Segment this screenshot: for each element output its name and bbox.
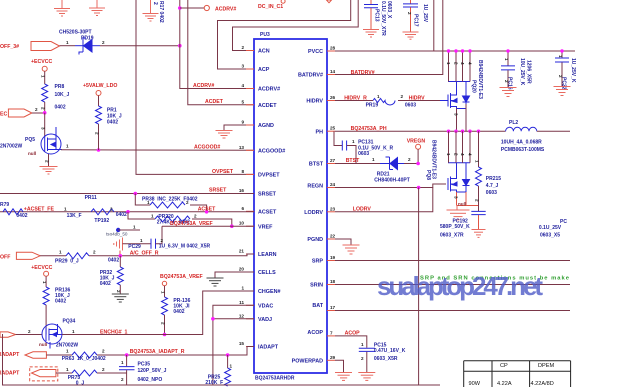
svg-text:PGND: PGND: [307, 237, 323, 243]
svg-text:BAT: BAT: [312, 303, 323, 309]
svg-text:PQ20: PQ20: [471, 80, 477, 93]
pin 20 CELLS: [246, 271, 254, 273]
svg-text:2: 2: [102, 40, 105, 45]
svg-text:3: 3: [41, 127, 46, 130]
resistor PR19 0603: [373, 99, 395, 106]
svg-text:25: 25: [330, 126, 336, 131]
capacitor PC22 on PVCC rail: [561, 51, 563, 58]
svg-text:1: 1: [151, 214, 154, 219]
pin 15 IADAPT: [246, 346, 254, 348]
wire: [40, 255, 66, 257]
svg-text:13K_F: 13K_F: [67, 213, 82, 219]
svg-text:0402: 0402: [55, 105, 66, 111]
svg-text:ACDET: ACDET: [258, 103, 277, 109]
svg-text:15: 15: [239, 341, 245, 346]
pin 6 ACSET: [246, 210, 254, 212]
resistor PR220 27.4K_F 0402: [128, 212, 232, 226]
svg-text:CP: CP: [500, 363, 508, 369]
svg-text:tso4db_50: tso4db_50: [106, 232, 128, 237]
svg-text:4: 4: [241, 83, 244, 88]
svg-text:1: 1: [377, 94, 380, 99]
svg-text:+ACSET_FE: +ACSET_FE: [24, 206, 55, 212]
ground (power, below PQ8): [447, 206, 470, 220]
svg-text:0402: 0402: [107, 120, 118, 126]
svg-text:2: 2: [28, 329, 31, 334]
svg-text:2: 2: [407, 12, 412, 15]
pin 25 PH: [327, 130, 335, 132]
pin 16 SRSET: [246, 193, 254, 195]
svg-text:7: 7: [330, 330, 333, 335]
svg-text:11: 11: [239, 300, 244, 305]
svg-text:IADAPT: IADAPT: [258, 345, 279, 351]
pin 26 HIDRV: [327, 100, 335, 102]
node junction REGN: [417, 186, 421, 190]
svg-text:0402: 0402: [173, 309, 184, 315]
resistor PR29 0_J 0402: [66, 253, 89, 259]
svg-text:null: null: [28, 151, 36, 156]
svg-text:1206_X5R: 1206_X5R: [526, 60, 532, 84]
node junction PR1/ACGOOD: [97, 148, 101, 152]
svg-text:ACDRV#: ACDRV#: [258, 87, 280, 93]
pin 13 ACGOOD#: [246, 149, 254, 151]
svg-text:0603_X5: 0603_X5: [540, 232, 560, 238]
wire ENCHG#_1: [62, 291, 254, 335]
wire bottom rail: [3, 334, 441, 385]
svg-text:4: 4: [460, 153, 465, 156]
pin 10 VREF: [246, 225, 254, 227]
node junction EC/PR8: [43, 111, 47, 115]
svg-text:14: 14: [330, 69, 336, 74]
wire SRIN: [335, 284, 570, 286]
svg-text:PC13: PC13: [374, 9, 380, 22]
svg-text:ACGOOD#: ACGOOD#: [258, 149, 285, 155]
wire VREF row: [162, 225, 254, 227]
resistor PR136 10K_J 0402: [43, 287, 49, 305]
svg-text:2: 2: [41, 107, 46, 110]
wire HIDRV_R: [335, 100, 373, 102]
svg-text:ACDRV#: ACDRV#: [193, 83, 214, 89]
node junction IADAPT/PC35: [125, 353, 129, 357]
wire POWERPAD: [335, 360, 344, 372]
svg-text:PR215: PR215: [486, 176, 502, 182]
svg-text:4: 4: [460, 62, 465, 65]
svg-text:ACDRV#: ACDRV#: [215, 7, 236, 13]
svg-text:1: 1: [121, 360, 124, 365]
svg-text:1: 1: [42, 281, 47, 284]
svg-text:DPEM: DPEM: [538, 363, 555, 369]
svg-text:16: 16: [239, 188, 245, 193]
svg-text:4.22A/8D: 4.22A/8D: [531, 381, 554, 387]
svg-text:BATDRV#: BATDRV#: [351, 70, 375, 76]
svg-text:LODRV: LODRV: [353, 206, 372, 212]
svg-text:1: 1: [446, 153, 451, 156]
ground (POWERPAD): [335, 373, 352, 381]
svg-text:PQ5: PQ5: [25, 137, 35, 143]
svg-text:R79: R79: [0, 202, 9, 208]
ground: [403, 32, 419, 39]
svg-text:2: 2: [161, 322, 166, 325]
wire ACSET row: [0, 210, 254, 213]
svg-text:1U_6.3V_M 0402_X5R: 1U_6.3V_M 0402_X5R: [159, 243, 211, 249]
node junction SRSET: [134, 192, 138, 196]
svg-text:2N7002W: 2N7002W: [0, 144, 23, 150]
svg-text:3: 3: [454, 196, 459, 199]
svg-text:ACOP: ACOP: [345, 331, 361, 337]
node junction VADJ: [211, 317, 215, 321]
wire BAT: [335, 310, 570, 312]
svg-text:PC35: PC35: [138, 361, 151, 367]
svg-text:2: 2: [475, 199, 480, 202]
svg-text:POWERPAD: POWERPAD: [292, 359, 323, 365]
svg-text:1: 1: [161, 291, 166, 294]
pin 27 BTST: [327, 163, 335, 165]
svg-text:0603: 0603: [405, 102, 416, 108]
node junction AC_OFF/PR32: [119, 254, 123, 258]
pin 23 LODRV: [327, 211, 335, 213]
wire ACGOOD#: [61, 149, 254, 152]
pin 1 CHGEN#: [246, 290, 254, 292]
svg-text:20: 20: [239, 267, 245, 272]
resistor PR63 1K_0_J0402: [72, 352, 97, 358]
svg-text:18: 18: [330, 279, 336, 284]
svg-text:1: 1: [66, 144, 69, 149]
svg-text:AGND: AGND: [258, 123, 274, 129]
svg-text:28: 28: [330, 46, 336, 51]
svg-text:PR11: PR11: [85, 195, 97, 201]
svg-text:2: 2: [93, 249, 96, 254]
svg-text:ACSET: ACSET: [198, 206, 216, 212]
ground (black): [112, 294, 129, 302]
pin 5 ACDET: [246, 104, 254, 106]
svg-text:10K_J: 10K_J: [55, 92, 70, 98]
wire HIDRV: [398, 100, 440, 102]
pin 4 ACDRV#: [246, 88, 254, 90]
svg-text:1: 1: [372, 157, 375, 162]
svg-text:6: 6: [241, 206, 244, 211]
svg-text:VREGN: VREGN: [407, 139, 426, 145]
svg-text:2: 2: [161, 238, 164, 243]
svg-text:0402: 0402: [108, 257, 119, 263]
ground PGND: [343, 245, 360, 254]
wire PH rail: [335, 130, 506, 132]
svg-text:1: 1: [558, 55, 563, 58]
pin 21 LEARN: [246, 253, 254, 255]
svg-text:BTST: BTST: [346, 158, 360, 164]
svg-text:27: 27: [330, 158, 336, 163]
svg-text:8: 8: [241, 169, 244, 174]
wire FET drain stubs: [449, 51, 471, 82]
svg-text:29: 29: [330, 355, 336, 360]
svg-text:4.22A: 4.22A: [497, 381, 512, 387]
node junction ACSET/PR38: [205, 210, 209, 214]
wire REGN: [335, 184, 446, 188]
wire source to ground: [48, 154, 50, 166]
svg-text:sualaptop247.net: sualaptop247.net: [377, 271, 543, 301]
svg-text:0402: 0402: [16, 213, 27, 219]
svg-text:DC_IN_C1: DC_IN_C1: [258, 4, 283, 10]
svg-text:PC22: PC22: [561, 77, 567, 90]
svg-text:4.7_J: 4.7_J: [486, 183, 499, 189]
svg-text:2: 2: [152, 2, 158, 5]
svg-text:+5VALW_LDO: +5VALW_LDO: [83, 83, 117, 89]
op-amp U1 : charger IC PU3 BQ24753ARHDR: [254, 39, 327, 373]
wire SRP: [335, 260, 570, 262]
svg-text:2N7002W: 2N7002W: [56, 343, 79, 349]
ground (small, PC192): [472, 230, 486, 238]
ground: [554, 87, 571, 96]
wire OVPSET vertical: [136, 0, 254, 174]
svg-text:PR29 0_J: PR29 0_J: [55, 258, 79, 264]
net flag (cropped): [327, 0, 332, 3]
svg-text:1: 1: [66, 40, 69, 45]
wire PQ8 drain stubs: [449, 131, 471, 163]
wire LODRV: [335, 188, 433, 212]
svg-text:VADJ: VADJ: [258, 317, 272, 323]
svg-text:ACN: ACN: [258, 49, 270, 55]
svg-text:REGN: REGN: [307, 184, 323, 190]
svg-text:ACP: ACP: [258, 67, 270, 73]
diode RD21 CH8400H-40PT: [380, 157, 404, 170]
capacitor PC29 1U_6.3V_M 0402_X5R: [123, 243, 151, 245]
svg-text:0603_X5R: 0603_X5R: [374, 356, 398, 362]
svg-text:B9424BDVT1-E3: B9424BDVT1-E3: [477, 60, 483, 99]
node junction ENCHG/PR-136: [163, 333, 167, 337]
svg-text:PC17: PC17: [413, 14, 419, 27]
svg-text:1: 1: [59, 249, 62, 254]
svg-text:1: 1: [133, 225, 136, 230]
pin 12 VADJ: [246, 318, 254, 320]
wire ACOP: [335, 336, 367, 348]
svg-text:CHGEN#: CHGEN#: [258, 289, 280, 295]
wire gate: [44, 113, 46, 137]
svg-text:0.47U_16V_K: 0.47U_16V_K: [374, 348, 406, 354]
svg-text:LEARN: LEARN: [258, 252, 277, 258]
svg-text:1: 1: [352, 139, 355, 144]
svg-text:10UH_4A_0.068R: 10UH_4A_0.068R: [501, 140, 542, 146]
pin 18 SRIN: [327, 284, 335, 286]
svg-text:1: 1: [361, 342, 364, 347]
svg-text:PVCC: PVCC: [308, 49, 323, 55]
svg-text:BTST: BTST: [309, 162, 324, 168]
wire ACDRV# vertical: [180, 0, 254, 89]
resistor PR32 10K_J 0402: [119, 256, 121, 267]
pin 22 PGND: [327, 238, 335, 240]
svg-text:null: null: [458, 202, 466, 207]
svg-text:ACDET: ACDET: [205, 99, 224, 105]
ground: [363, 30, 379, 38]
ground (rotated, PC29 left): [114, 238, 123, 256]
svg-text:PL2: PL2: [509, 120, 518, 126]
svg-text:0402_NPO: 0402_NPO: [138, 377, 163, 383]
svg-text:BQ24753A_VREF: BQ24753A_VREF: [160, 274, 203, 280]
capacitor on PVCC rail (10U_25V_K 1206_X5R): [507, 51, 509, 66]
svg-text:1: 1: [504, 58, 509, 61]
svg-text:90W: 90W: [469, 381, 481, 387]
svg-text:13: 13: [239, 145, 245, 150]
svg-text:CELLS: CELLS: [258, 270, 276, 276]
svg-text:A/C_OFF_R: A/C_OFF_R: [130, 251, 159, 257]
svg-text:2: 2: [35, 107, 38, 112]
capacitor (top, 0.1U_50V): [364, 0, 378, 29]
svg-text:OFF: OFF: [0, 255, 10, 261]
wire PH output: [537, 130, 570, 132]
svg-text:22: 22: [330, 234, 336, 239]
svg-text:ACSET: ACSET: [258, 210, 277, 216]
svg-text:2: 2: [241, 45, 244, 50]
svg-text:VREF: VREF: [258, 224, 273, 230]
table: [464, 361, 571, 387]
resistor PR215 4.7_J 0603: [478, 131, 480, 167]
svg-text:23: 23: [330, 206, 336, 211]
node junction ACDRV# flag tap: [178, 6, 182, 10]
svg-text:4: 4: [468, 62, 473, 65]
node junction BTST/VREGN: [416, 162, 420, 166]
pin 28 PVCC: [327, 50, 335, 52]
svg-text:1U_25V: 1U_25V: [422, 4, 428, 23]
svg-text:1: 1: [66, 367, 69, 372]
wire ACP loop: [218, 0, 351, 69]
svg-text:24: 24: [330, 182, 336, 187]
svg-text:17: 17: [330, 305, 336, 310]
svg-text:1: 1: [140, 238, 143, 243]
svg-text:2: 2: [186, 200, 189, 205]
svg-text:2: 2: [102, 349, 105, 354]
svg-text:2: 2: [95, 132, 100, 135]
svg-text:1: 1: [72, 329, 75, 334]
wire BATDRV#: [335, 0, 443, 75]
svg-text:2: 2: [121, 377, 124, 382]
svg-text:1: 1: [41, 75, 46, 78]
svg-text:2: 2: [454, 153, 459, 156]
svg-text:OFF_3#: OFF_3#: [0, 44, 19, 50]
ground: [500, 88, 517, 97]
pin 11 VDAC: [246, 304, 254, 306]
resistor PR-136 10K_JI 0402: [162, 297, 168, 315]
node junctions on PH rail: [447, 130, 450, 133]
svg-text:2: 2: [454, 62, 459, 65]
wire: [60, 45, 76, 47]
svg-text:PU3: PU3: [260, 32, 270, 38]
resistor PR25 210K_F: [226, 353, 230, 357]
ground CELLS (black): [215, 272, 254, 278]
svg-text:HIDRV_R: HIDRV_R: [344, 96, 367, 102]
ground: [54, 0, 70, 16]
node junction ACSET/PR220: [126, 210, 130, 214]
svg-text:PCMB063T-100MS: PCMB063T-100MS: [501, 147, 545, 153]
svg-text:SRSET: SRSET: [258, 192, 277, 198]
resistor PR1 10K_J 0402: [96, 106, 102, 124]
svg-text:2: 2: [45, 160, 50, 163]
wire AGND: [224, 125, 254, 130]
svg-text:B9424BDVT1-E3: B9424BDVT1-E3: [431, 140, 437, 179]
test point tso4db_50: [116, 228, 120, 232]
svg-text:580P_50V_K: 580P_50V_K: [440, 224, 470, 230]
capacitor PC192 580P_50V_K 0603_X7R: [478, 206, 480, 212]
pin 29 POWERPAD: [327, 359, 335, 361]
svg-text:DVPSET: DVPSET: [258, 173, 280, 179]
svg-text:PH: PH: [316, 129, 324, 135]
node junction on ACDRV# vertical: [178, 44, 182, 48]
wire PVCC rail: [335, 50, 575, 52]
svg-text:0.1U_25V: 0.1U_25V: [539, 225, 562, 231]
connector ACDRV# (open circle flag): [180, 7, 204, 9]
svg-text:4: 4: [468, 153, 473, 156]
svg-text:ENCHG#_1: ENCHG#_1: [100, 329, 128, 335]
svg-text:2: 2: [408, 157, 411, 162]
svg-text:ACOP: ACOP: [307, 330, 323, 336]
svg-text:9: 9: [241, 120, 244, 125]
capacitor PC17: [403, 0, 418, 32]
svg-text:PR8: PR8: [55, 84, 65, 90]
svg-text:BQ24753A_IADAPT_R: BQ24753A_IADAPT_R: [130, 349, 185, 355]
svg-text:10: 10: [239, 221, 245, 226]
svg-text:SRIN: SRIN: [310, 283, 323, 289]
ground: [40, 167, 58, 175]
svg-text:R17 0402: R17 0402: [158, 1, 164, 23]
wire ACDET vertical: [188, 0, 254, 105]
svg-text:1: 1: [241, 286, 244, 291]
svg-text:PQ34: PQ34: [63, 319, 76, 325]
svg-text:5: 5: [241, 99, 244, 104]
transistor PQ20 (high-side NFET): [440, 82, 470, 109]
svg-text:21: 21: [239, 249, 245, 254]
ground (ACOP): [358, 373, 375, 381]
node junction VREF/PR220: [230, 224, 234, 228]
svg-text:1U_25V_K: 1U_25V_K: [570, 58, 576, 83]
pin 17 BAT: [327, 310, 335, 312]
svg-text:OVPSET: OVPSET: [212, 169, 234, 175]
wire BTST: [335, 163, 418, 165]
pin 2 ACN: [246, 50, 254, 52]
svg-text:PR38 INC_225K_F0402: PR38 INC_225K_F0402: [142, 197, 198, 203]
svg-text:1: 1: [64, 206, 67, 211]
svg-text:1: 1: [66, 349, 69, 354]
pin 19 SRP: [327, 260, 335, 262]
pin 7 ACOP: [327, 335, 335, 337]
svg-text:2: 2: [361, 356, 364, 361]
wire REGN bypass vertical: [418, 188, 420, 386]
svg-text:HIDRV: HIDRV: [306, 99, 323, 105]
svg-text:IADAPT: IADAPT: [0, 352, 20, 358]
svg-text:TP192: TP192: [94, 218, 109, 224]
wire PQ8 source to ground: [457, 192, 479, 206]
wire SRSET row: [0, 193, 254, 195]
svg-text:SRSET: SRSET: [209, 188, 227, 194]
svg-text:BQ24753ARHDR: BQ24753ARHDR: [255, 376, 295, 382]
svg-text:PC29: PC29: [128, 244, 141, 250]
resistor PR75 0_J 0402: [72, 370, 97, 376]
svg-text:10U_25V_K: 10U_25V_K: [519, 58, 525, 86]
svg-text:HIDRV: HIDRV: [409, 96, 426, 102]
svg-text:3: 3: [241, 64, 244, 69]
wire FET source stubs to PH rail: [457, 104, 467, 131]
pin 24 REGN: [327, 187, 335, 189]
svg-text:2: 2: [401, 94, 404, 99]
svg-text:+ECVCC: +ECVCC: [31, 265, 52, 271]
svg-text:IADAPT: IADAPT: [0, 371, 20, 377]
svg-text:PR19: PR19: [366, 103, 379, 109]
svg-text:12: 12: [239, 313, 245, 318]
svg-text:PR63: PR63: [62, 356, 75, 362]
svg-text:EC: EC: [0, 112, 7, 118]
svg-text:0603: 0603: [358, 151, 369, 157]
net flag DC_IN_C1: [281, 0, 285, 3]
connector (left edge, ENCHG input): [0, 332, 16, 337]
ground: [143, 0, 159, 21]
svg-text:0402: 0402: [116, 212, 127, 218]
svg-text:3: 3: [454, 113, 459, 116]
svg-text:BQ24753A_PH: BQ24753A_PH: [351, 126, 387, 132]
